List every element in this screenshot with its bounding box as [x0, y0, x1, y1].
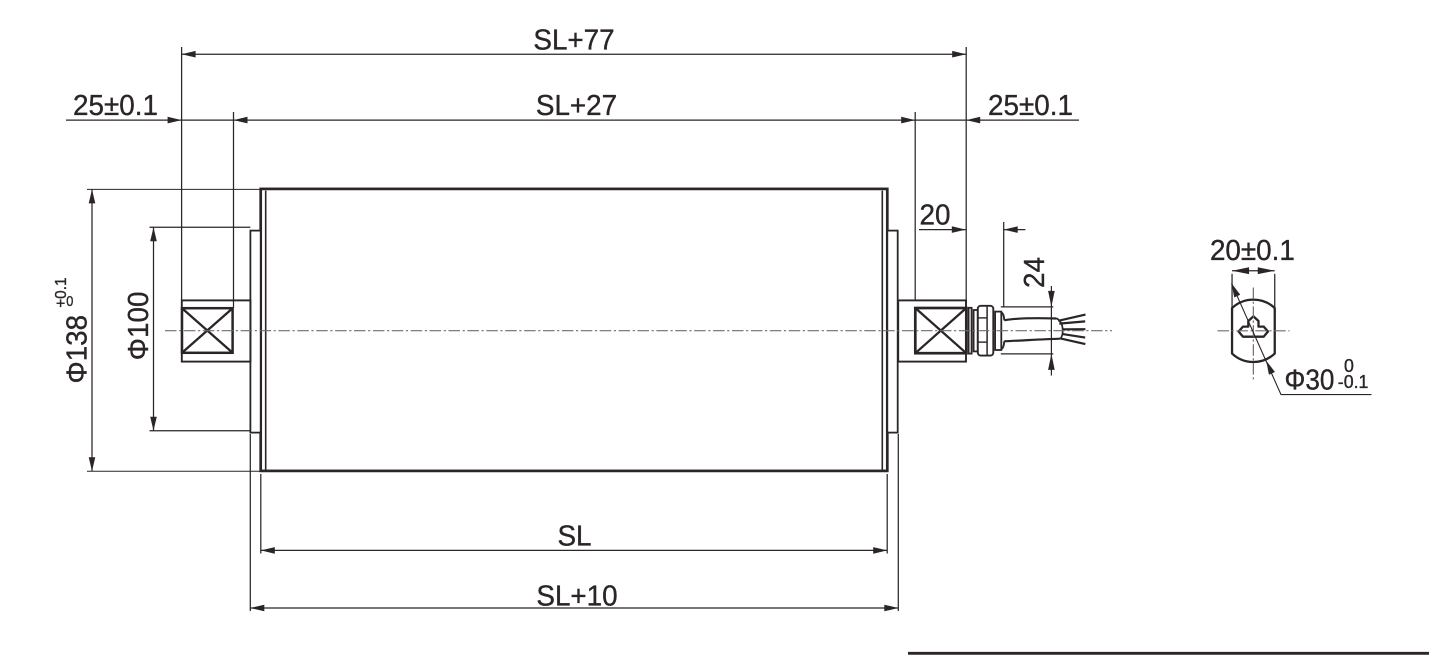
extension line 20&#177;0.1 left [1231, 274, 1233, 310]
svg-text:25±0.1: 25±0.1 [988, 90, 1073, 123]
svg-text:24: 24 [1018, 257, 1051, 288]
dimension line 20 left segment [919, 229, 966, 231]
arrow phi138 top (up) [89, 189, 96, 203]
extension line right shaft end (x=966.2) [965, 47, 967, 308]
extension line phi100 bottom [150, 430, 251, 432]
arrow phi100 bottom (down) [150, 417, 157, 431]
extension line right bearing face (x=915.2) [914, 112, 916, 300]
arrow SL+27 right [901, 117, 915, 124]
arrow SL+10 left [250, 605, 264, 612]
dimension line phi138 [91, 189, 93, 471]
title block border line (bottom right) [908, 652, 1429, 655]
leader arrow at circle edge [1266, 361, 1275, 375]
drum tube right inner wall line [881, 191, 883, 471]
cable gland nut facet line top [978, 317, 987, 319]
detail horizontal centerline [1218, 330, 1290, 332]
dimension line 24 [1050, 286, 1052, 376]
arrow phi100 top (up) [150, 227, 157, 241]
svg-text:Φ30: Φ30 [1285, 363, 1335, 396]
arrow 24 bottom (pointing up) [1048, 354, 1055, 370]
dimension line SL+27 [234, 119, 916, 121]
arrow SL+77 left [182, 51, 196, 58]
arrow 20 left (pointing right) [952, 226, 966, 233]
right shaft square diagonal 1 [915, 308, 966, 353]
detail vertical centerline [1252, 288, 1254, 380]
shaft cross-section outline [1232, 300, 1275, 362]
left shaft square diagonal 1 [182, 308, 233, 353]
right end cap [887, 231, 897, 433]
extension line 24 bottom [1001, 353, 1054, 355]
arrow 20±0.1 right (pointing right) [1258, 267, 1275, 274]
dimension line SL+10 [250, 607, 898, 609]
left shaft square diagonal 2 [182, 308, 233, 353]
cable bottom edge [1004, 339, 1060, 342]
centerline (main horizontal axis) [165, 330, 1112, 332]
cable end face [1057, 318, 1063, 338]
arrow phi138 bottom (down) [89, 457, 96, 471]
extension line SL left [260, 474, 262, 554]
cable gland dome bottom [1001, 341, 1004, 349]
dimension line SL+77 [182, 53, 967, 55]
extension line phi138 top [87, 188, 261, 190]
svg-text:-0.1: -0.1 [1338, 371, 1369, 391]
svg-text:20: 20 [920, 199, 951, 232]
extension line SL+10 left [249, 434, 251, 611]
wire 3 [1062, 328, 1085, 330]
arrow 20 right (pointing left) [1004, 226, 1018, 233]
leader line phi30 [1232, 283, 1372, 394]
svg-text:SL: SL [557, 520, 591, 553]
cable gland ring 2 [974, 310, 978, 351]
wire 4 [1062, 334, 1085, 338]
extension line SL right [886, 474, 888, 554]
arrow 25 right (outside pointing left) [966, 117, 980, 124]
cable gland ring 1 [969, 308, 972, 354]
cable top edge [1004, 318, 1056, 320]
extension line 24 top [1001, 306, 1054, 308]
extension line left bearing face (x=233.5) [233, 112, 235, 308]
extension line phi100 top [150, 226, 251, 228]
svg-text:20±0.1: 20±0.1 [1210, 234, 1295, 267]
cable gland collar [995, 312, 1001, 350]
svg-text:SL+77: SL+77 [533, 24, 614, 57]
arrow SL+27 left [234, 117, 248, 124]
wire 2 [1059, 321, 1085, 323]
arrow 20±0.1 left (pointing left) [1232, 267, 1249, 274]
shaft T-slot keyway [1239, 316, 1268, 336]
wire 1 [1058, 315, 1085, 321]
svg-text:25±0.1: 25±0.1 [73, 90, 158, 123]
dimension line SL [261, 549, 887, 551]
right shaft square [915, 308, 966, 353]
svg-text:Φ100: Φ100 [122, 292, 155, 361]
cable gland dome top [1001, 312, 1004, 320]
extension line cable root (x=1003.7) [1003, 222, 1005, 307]
cable gland nut [978, 306, 994, 356]
left end cap [250, 231, 260, 433]
drum tube left inner wall line [265, 191, 267, 471]
svg-text:0: 0 [66, 292, 73, 309]
arrow SL+77 right [952, 51, 966, 58]
arrow SL+10 right [884, 605, 898, 612]
dimension line 25 left [66, 119, 234, 121]
dimension line phi100 [153, 227, 155, 431]
extension line 20±0.1 right [1274, 274, 1276, 310]
left bearing boss [182, 300, 251, 361]
svg-text:SL+27: SL+27 [536, 90, 617, 123]
leader arrow at flat extension [1232, 283, 1241, 297]
left shaft square [182, 308, 233, 353]
extension line phi138 bottom [87, 470, 261, 472]
dimension line 25 right [915, 119, 1079, 121]
arrow 25 left (outside pointing right) [168, 117, 182, 124]
arrow SL right [873, 547, 887, 554]
extension line SL+10 right [897, 434, 899, 611]
drum tube body [261, 189, 888, 471]
extension line left shaft end (x=181.6) [181, 47, 183, 300]
wire 5 [1060, 338, 1085, 344]
cable gland nut facet line bottom [978, 341, 987, 343]
svg-text:SL+10: SL+10 [536, 580, 617, 613]
cable gland nut inner edge [986, 307, 988, 355]
dimension line 20±0.1 [1232, 270, 1275, 272]
svg-text:Φ138: Φ138 [61, 315, 94, 384]
right bearing boss [898, 300, 966, 361]
right shaft square diagonal 2 [915, 308, 966, 353]
dimension line 20 right segment [1004, 229, 1026, 231]
arrow SL left [261, 547, 275, 554]
arrow 24 top (pointing down) [1048, 291, 1055, 307]
